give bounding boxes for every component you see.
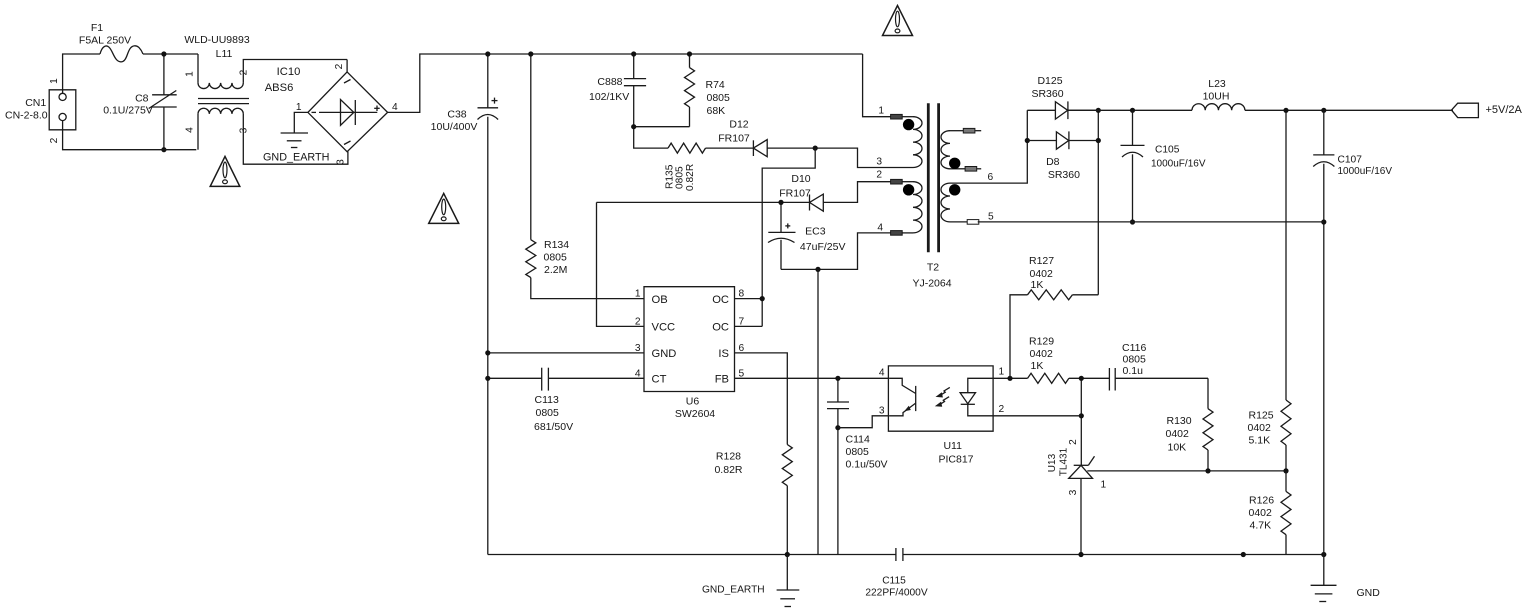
svg-text:10UH: 10UH: [1203, 91, 1230, 103]
junction C114 top: [835, 376, 840, 381]
svg-text:1K: 1K: [1031, 279, 1044, 291]
svg-text:0.1u: 0.1u: [1123, 365, 1144, 377]
svg-text:GND_EARTH: GND_EARTH: [263, 152, 329, 164]
svg-text:SR360: SR360: [1048, 169, 1080, 181]
svg-text:U6: U6: [686, 396, 700, 408]
svg-text:U13: U13: [1047, 453, 1058, 472]
svg-text:681/50V: 681/50V: [534, 421, 573, 433]
wire opto pin3 step: [838, 416, 889, 428]
wire D12 anode to T2 pin3: [767, 148, 913, 167]
svg-text:5.1K: 5.1K: [1249, 435, 1271, 447]
warning triangle 3: [883, 6, 913, 36]
junction R128 ground: [785, 552, 790, 557]
warning triangle 1: [210, 156, 240, 186]
wire rectifier cathodes: [1097, 110, 1099, 294]
wire 0V line: [978, 221, 1324, 223]
junction C8 bottom: [161, 147, 166, 152]
svg-text:C38: C38: [447, 109, 466, 121]
ferrite bead pin5: [967, 220, 979, 225]
junction GND rail: [485, 350, 490, 355]
wire U6 IS to R128: [735, 353, 788, 445]
optocoupler U11 PIC817: [888, 366, 993, 431]
resistor R135: [668, 143, 706, 153]
junction TL431 anode ground: [1078, 552, 1083, 557]
svg-text:222PF/4000V: 222PF/4000V: [865, 588, 928, 599]
diode D8 SR360: [1027, 140, 1056, 142]
svg-text:1: 1: [635, 289, 641, 300]
svg-text:L11: L11: [216, 48, 233, 60]
svg-text:10U/400V: 10U/400V: [431, 121, 478, 133]
ferrite bead stub A bottom: [965, 167, 977, 172]
wire opto pin1 node: [993, 377, 1028, 379]
svg-text:2: 2: [49, 137, 60, 143]
svg-text:CN-2-8.0: CN-2-8.0: [5, 110, 48, 122]
wire R135 to D12: [706, 147, 754, 149]
diode D125 SR360: [1027, 109, 1055, 111]
svg-text:3: 3: [879, 406, 885, 417]
resistor R128: [782, 445, 792, 486]
wire T2 pin6 to rectifier anodes: [950, 110, 1027, 183]
inductor L11 common-mode choke: [197, 54, 199, 83]
diode D10 FR107: [809, 195, 811, 211]
wire drain to U6 OC pins: [762, 148, 815, 326]
junction C888 top: [631, 51, 636, 56]
inductor L23: [1192, 104, 1245, 111]
warning triangle 2: [429, 193, 459, 223]
svg-text:C113: C113: [535, 394, 559, 406]
svg-text:0805: 0805: [846, 446, 870, 458]
svg-text:C115: C115: [882, 576, 906, 587]
svg-text:4: 4: [185, 127, 196, 133]
svg-text:R127: R127: [1029, 255, 1054, 267]
svg-text:F1: F1: [91, 22, 103, 34]
svg-text:4: 4: [392, 102, 398, 113]
phase dot primary 2: [903, 184, 914, 195]
svg-text:1: 1: [185, 71, 196, 77]
junction cathode D8: [1096, 138, 1101, 143]
shunt regulator U13 TL431: [1074, 464, 1089, 466]
svg-text:GND_EARTH: GND_EARTH: [702, 585, 765, 596]
junction C107 ground: [1321, 552, 1326, 557]
svg-text:4: 4: [879, 368, 885, 379]
wire CN1 pin2 bottom rail: [63, 121, 197, 150]
svg-text:+5V/2A: +5V/2A: [1486, 104, 1523, 116]
capacitor C116: [1108, 368, 1110, 391]
svg-text:2: 2: [239, 69, 250, 75]
svg-text:WLD-UU9893: WLD-UU9893: [184, 34, 250, 46]
junction C105 ground: [1130, 219, 1135, 224]
junction rail C107: [1321, 108, 1326, 113]
svg-text:C105: C105: [1155, 145, 1180, 156]
capacitor C114: [837, 378, 839, 402]
svg-text:10K: 10K: [1168, 442, 1187, 454]
wire D10 anode to T2 pin2: [823, 182, 890, 203]
wire opto pin2: [993, 415, 1081, 417]
junction C38 top: [485, 51, 490, 56]
IC U6 SW2604: [644, 287, 735, 392]
svg-text:0805: 0805: [536, 407, 560, 419]
svg-text:F5AL 250V: F5AL 250V: [79, 35, 131, 47]
svg-text:C114: C114: [846, 434, 870, 446]
wire TL431 cathode node: [1080, 378, 1082, 465]
svg-text:0805: 0805: [675, 166, 686, 189]
svg-text:VCC: VCC: [652, 322, 676, 334]
junction R130 ref: [1205, 468, 1210, 473]
junction C8 top: [161, 51, 166, 56]
svg-text:1: 1: [999, 367, 1005, 378]
svg-text:0402: 0402: [1166, 428, 1190, 440]
svg-text:FR107: FR107: [779, 188, 811, 200]
svg-text:R129: R129: [1029, 336, 1054, 348]
transformer T2 YJ-2064: [927, 103, 930, 252]
junction rail tie: [1241, 552, 1246, 557]
resistor R74: [689, 54, 691, 68]
svg-text:CT: CT: [652, 374, 667, 386]
svg-text:0805: 0805: [544, 252, 568, 264]
junction cathode top: [1096, 108, 1101, 113]
svg-text:SW2604: SW2604: [675, 408, 715, 420]
svg-text:SR360: SR360: [1031, 88, 1063, 100]
svg-text:GND: GND: [652, 348, 677, 360]
svg-text:L23: L23: [1208, 78, 1226, 90]
svg-text:0.1U/275V: 0.1U/275V: [103, 105, 153, 117]
svg-text:FR107: FR107: [718, 133, 750, 145]
svg-text:GND: GND: [1357, 587, 1381, 599]
svg-text:1: 1: [49, 78, 60, 84]
svg-text:R130: R130: [1167, 415, 1192, 427]
junction CT rail: [485, 376, 490, 381]
secondary ground rail: [903, 554, 1324, 556]
svg-text:4: 4: [877, 223, 883, 234]
junction R129 out: [1079, 376, 1084, 381]
svg-text:0402: 0402: [1249, 507, 1273, 519]
svg-text:D10: D10: [791, 173, 810, 185]
resistor R129: [1028, 373, 1069, 383]
phase dot primary 1: [903, 119, 914, 130]
svg-text:U11: U11: [943, 440, 962, 452]
svg-text:0402: 0402: [1248, 422, 1272, 434]
ground GND symbol: [1323, 555, 1325, 586]
svg-text:2.2M: 2.2M: [544, 264, 567, 276]
svg-text:OC: OC: [712, 294, 729, 306]
svg-text:3: 3: [1068, 489, 1079, 495]
svg-text:102/1KV: 102/1KV: [589, 91, 629, 103]
junction rail C105: [1130, 108, 1135, 113]
svg-text:R134: R134: [544, 239, 569, 251]
svg-text:R126: R126: [1249, 495, 1274, 507]
svg-text:0.82R: 0.82R: [685, 164, 696, 191]
wire R127 drop: [1010, 295, 1028, 379]
wire U6 FB to opto pin4: [735, 377, 890, 379]
wire fuse to L11 pin1: [143, 53, 198, 55]
wire snubber bottom: [634, 126, 690, 128]
junction EC3 top: [778, 200, 783, 205]
svg-text:4.7K: 4.7K: [1250, 520, 1272, 532]
svg-text:3: 3: [239, 127, 250, 133]
svg-text:0805: 0805: [1123, 354, 1147, 366]
capacitor C38: [487, 54, 489, 108]
ferrite bead pin2: [891, 179, 903, 184]
svg-text:1: 1: [878, 106, 884, 117]
junction divider: [1283, 468, 1288, 473]
svg-text:R125: R125: [1249, 410, 1274, 422]
svg-text:2: 2: [1068, 439, 1079, 445]
svg-text:OB: OB: [652, 294, 668, 306]
svg-text:0402: 0402: [1030, 348, 1054, 360]
svg-text:FB: FB: [715, 374, 729, 386]
capacitor EC3: [780, 202, 782, 232]
junction rail R125: [1283, 108, 1288, 113]
ground GND_EARTH at bridge pin1: [294, 112, 308, 133]
svg-text:2: 2: [876, 170, 882, 181]
junction opto pin2 node: [1079, 413, 1084, 418]
svg-text:EC3: EC3: [805, 226, 826, 238]
junction drain node: [813, 146, 818, 151]
capacitor C888: [633, 54, 635, 79]
svg-text:3: 3: [336, 159, 347, 165]
svg-text:68K: 68K: [707, 105, 726, 117]
ferrite bead stub A top: [963, 128, 975, 133]
svg-text:3: 3: [876, 157, 882, 168]
junction C107 0V: [1321, 219, 1326, 224]
svg-text:R128: R128: [716, 451, 741, 463]
fuse F1: [100, 46, 143, 62]
capacitor C105: [1132, 110, 1134, 145]
svg-text:PIC817: PIC817: [938, 454, 973, 466]
wire CN1 pin1 to top rail: [63, 54, 100, 93]
junction R127 node: [1007, 376, 1012, 381]
primary ground rail: [488, 554, 896, 556]
svg-text:ABS6: ABS6: [265, 82, 294, 94]
svg-text:D125: D125: [1037, 75, 1062, 87]
svg-text:D8: D8: [1046, 156, 1060, 168]
svg-text:0.82R: 0.82R: [714, 464, 742, 476]
svg-text:2: 2: [635, 316, 641, 327]
svg-text:0805: 0805: [707, 92, 731, 104]
junction D8 anode: [1025, 138, 1030, 143]
phase dot secondary A: [949, 158, 960, 169]
wire aux ground drop: [817, 269, 819, 554]
wire B+ to T2 pin1: [863, 54, 891, 117]
svg-text:YJ-2064: YJ-2064: [912, 278, 951, 290]
svg-text:D12: D12: [729, 119, 748, 131]
capacitor C107: [1323, 110, 1325, 155]
svg-text:C107: C107: [1338, 155, 1363, 166]
junction R134 top: [528, 51, 533, 56]
svg-text:CN1: CN1: [25, 97, 46, 109]
ferrite bead pin4: [891, 231, 903, 236]
svg-text:7: 7: [739, 316, 745, 327]
svg-text:OC: OC: [712, 322, 729, 334]
resistor R130: [1207, 378, 1209, 408]
resistor R134: [530, 54, 532, 240]
resistor R127: [1028, 290, 1073, 300]
ground GND_EARTH symbol: [786, 555, 788, 591]
capacitor C8: [163, 54, 165, 95]
svg-text:IC10: IC10: [277, 66, 301, 78]
capacitor C113 on CT line: [488, 377, 542, 379]
wire U6 GND to rail: [488, 352, 644, 354]
capacitor C115: [895, 548, 897, 561]
svg-text:TL431: TL431: [1059, 447, 1070, 476]
svg-text:6: 6: [988, 172, 994, 183]
wire bridge output to B+ rail: [388, 54, 863, 112]
svg-text:1K: 1K: [1031, 360, 1044, 372]
resistor R125: [1285, 110, 1287, 400]
svg-text:47uF/25V: 47uF/25V: [800, 241, 846, 253]
wire R134 to U6 pin1 OB: [531, 278, 644, 299]
diode D12 FR107: [752, 140, 754, 156]
svg-text:C8: C8: [135, 93, 149, 105]
junction R74 top: [687, 51, 692, 56]
output flag +5V/2A: [1452, 103, 1479, 117]
svg-text:2: 2: [334, 63, 345, 69]
svg-text:1000uF/16V: 1000uF/16V: [1338, 166, 1393, 177]
svg-text:2: 2: [999, 404, 1005, 415]
svg-text:1: 1: [1101, 480, 1107, 491]
+5V rail: [1068, 109, 1192, 111]
resistor R126: [1285, 471, 1287, 492]
junction aux ground: [815, 267, 820, 272]
svg-text:T2: T2: [927, 262, 939, 274]
wire VCC line: [597, 201, 810, 203]
wire EC3 bottom to T2 pin4: [781, 233, 891, 270]
svg-text:IS: IS: [718, 348, 729, 360]
bridge rectifier IC10: [308, 72, 388, 152]
svg-text:1: 1: [296, 102, 302, 113]
junction snubber: [631, 124, 636, 129]
svg-text:1000uF/16V: 1000uF/16V: [1151, 159, 1206, 170]
junction C114 bottom: [835, 425, 840, 430]
connector CN1: [49, 90, 76, 130]
svg-text:0.1u/50V: 0.1u/50V: [846, 459, 888, 471]
phase dot secondary B: [949, 184, 960, 195]
svg-text:5: 5: [988, 212, 994, 223]
svg-text:8: 8: [739, 289, 745, 300]
svg-text:C116: C116: [1122, 342, 1146, 354]
svg-text:R74: R74: [706, 79, 725, 91]
svg-text:C888: C888: [597, 76, 622, 88]
junction OC pin8: [760, 296, 765, 301]
ferrite bead pin1: [891, 114, 903, 119]
